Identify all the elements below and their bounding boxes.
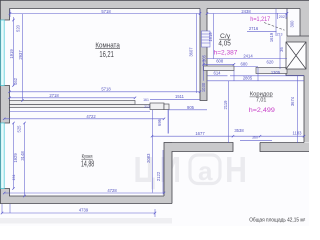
wall right lower (304, 76, 309, 143)
wall room east (between room and bathroom) (200, 9, 207, 101)
watermark band bottom (partial next tile row) (0, 218, 172, 224)
partition bathroom south right piece (256, 68, 287, 74)
wall stub kitchen door (150, 103, 164, 110)
dim extension bathroom west (203, 59, 205, 81)
wall pier left-middle (0, 86, 10, 124)
svg-text:213: 213 (144, 105, 150, 109)
svg-text:h=2,387: h=2,387 (214, 49, 238, 56)
wall kitchen right (164, 142, 172, 204)
svg-text:14,88: 14,88 (81, 160, 95, 169)
svg-text:2083: 2083 (146, 153, 151, 163)
svg-text:4722: 4722 (86, 114, 96, 119)
vent hatch in room east wall (202, 31, 211, 47)
dim line corridor vertical left (228, 81, 230, 144)
wall corridor bottom left segment (172, 143, 233, 152)
svg-text:620: 620 (267, 60, 275, 65)
dim line 2716 (247, 31, 277, 33)
leader dashed for h=1,217 (264, 23, 285, 31)
svg-text:1030: 1030 (201, 82, 206, 92)
svg-text:202: 202 (279, 15, 285, 19)
dim line corridor bottom chain (152, 135, 304, 137)
svg-text:3674: 3674 (290, 96, 295, 106)
svg-text:696: 696 (157, 118, 162, 126)
svg-text:5718: 5718 (101, 86, 111, 91)
svg-text:4739: 4739 (79, 208, 89, 213)
outline corner TL inner faces (1, 9, 10, 21)
outline top wall inner face over room (10, 8, 201, 10)
outline corner BL (1, 189, 164, 197)
svg-text:462: 462 (13, 77, 18, 85)
svg-text:305: 305 (202, 54, 207, 62)
svg-text:213: 213 (277, 33, 283, 37)
svg-text:2119: 2119 (223, 100, 228, 110)
dim line niche vertical (275, 9, 277, 37)
svg-text:7,01: 7,01 (256, 97, 267, 103)
wall corner top-left (0, 0, 10, 20)
svg-text:2716: 2716 (249, 26, 259, 31)
svg-text:131: 131 (12, 175, 16, 181)
room label С/у (218, 33, 231, 48)
wall strip right of shaft (306, 42, 309, 69)
outline below shaft (286, 69, 304, 76)
dim line kitchen vertical right (153, 110, 164, 193)
outline left outer edge (0, 0, 1, 204)
svg-text:608: 608 (216, 59, 224, 64)
dim line corridor right vertical (297, 76, 299, 144)
svg-text:525: 525 (16, 125, 21, 133)
dim line room vertical right (196, 14, 198, 94)
outline pier left-middle (1, 86, 10, 124)
dimension texts blue (49, 9, 302, 213)
svg-text:1305: 1305 (271, 70, 281, 75)
dim line exterior bottom (2, 204, 155, 217)
svg-text:Н: Н (225, 149, 247, 190)
svg-text:1619: 1619 (208, 32, 213, 42)
svg-text:3538: 3538 (234, 128, 244, 133)
svg-text:1929: 1929 (13, 153, 18, 163)
window kitchen (left wall lower) (1, 123, 4, 189)
wall corner bottom-left (0, 189, 10, 197)
watermark letter-a rounded box (190, 155, 220, 184)
svg-text:520: 520 (15, 24, 20, 32)
door leaf kitchen (167, 110, 169, 134)
svg-text:614: 614 (214, 71, 222, 76)
vent shaft crossed box (286, 42, 306, 69)
svg-text:36: 36 (279, 47, 284, 52)
svg-text:2805: 2805 (243, 76, 253, 81)
svg-text:1677: 1677 (195, 131, 205, 136)
dim line 614 (208, 75, 228, 77)
dim line left outer chain (22, 14, 24, 101)
dim line 608 (204, 63, 235, 65)
dim line 2718 (10, 97, 136, 99)
wall bottom (kitchen) (0, 196, 172, 204)
room label Комната (95, 41, 120, 59)
dim line shaft left vertical (279, 36, 281, 69)
svg-text:5718: 5718 (101, 9, 111, 14)
dim line 2414 (207, 58, 287, 60)
svg-text:2414: 2414 (243, 54, 253, 59)
svg-text:1619: 1619 (269, 32, 274, 42)
dim line 2805 (207, 80, 304, 82)
svg-text:Общая площадь 42,15 м²: Общая площадь 42,15 м² (249, 217, 305, 223)
room label Коридор (250, 92, 273, 104)
svg-text:3148: 3148 (20, 151, 25, 161)
svg-text:а: а (198, 156, 213, 186)
room label Кухня (81, 154, 95, 169)
dim line left kitchen chain outer (24, 123, 26, 196)
svg-text:680: 680 (241, 62, 249, 67)
svg-text:3607: 3607 (188, 47, 193, 57)
svg-text:1511: 1511 (175, 94, 185, 99)
dim line room bottom width (10, 91, 201, 93)
dim line bathroom west vertical (213, 14, 215, 59)
outline bottom wall outer face (0, 203, 172, 205)
svg-text:4728: 4728 (107, 188, 117, 193)
svg-text:161: 161 (143, 98, 149, 102)
dimension tick slashes (1, 12, 305, 214)
dim line kitchen top chain (10, 111, 151, 113)
svg-text:1183: 1183 (292, 130, 302, 135)
wall corridor bottom right segment (260, 143, 309, 152)
dim line 4722 (4, 118, 164, 120)
dim marks 202 (278, 13, 287, 19)
svg-text:4,05: 4,05 (218, 41, 230, 48)
outline image top edge (0, 0, 309, 1)
dim line 905 (169, 109, 207, 111)
dim line 680 (234, 66, 258, 68)
outline right top wall west face (299, 9, 301, 37)
outline corridor wall right of door (260, 143, 309, 152)
partition bathroom south left piece (204, 66, 235, 71)
dim line 1511 (150, 98, 200, 100)
svg-text:2937: 2937 (18, 50, 23, 60)
dim line kitchen bottom chain (4, 192, 164, 194)
outline right lower wall west face (303, 76, 305, 143)
outline top wall inner face over bathroom (207, 8, 300, 10)
door jamb kitchen door (164, 104, 169, 110)
dim line 1305 (230, 75, 304, 77)
wall right top (300, 0, 309, 36)
dim line left inner chain (13, 17, 15, 86)
dim line left kitchen chain inner (13, 123, 15, 189)
wall below shaft (286, 69, 309, 76)
outline room east wall faces (200, 9, 207, 101)
svg-text:905: 905 (187, 105, 195, 110)
svg-text:h=2,499: h=2,499 (249, 107, 276, 114)
dim extension bathroom door jambs (234, 68, 258, 81)
svg-text:1919: 1919 (9, 49, 14, 59)
partition kitchen north lower leaf (10, 105, 151, 108)
svg-text:360: 360 (252, 136, 258, 140)
svg-text:2718: 2718 (49, 93, 59, 98)
dim line top room width (10, 10, 200, 18)
svg-text:2438: 2438 (241, 9, 251, 14)
wall top (0, 0, 309, 9)
dim line top bathroom width (207, 10, 287, 18)
outline niche west thin wall (286, 9, 288, 37)
watermark CIAN logo (134, 149, 248, 190)
svg-text:300: 300 (289, 20, 294, 28)
svg-text:2122: 2122 (156, 171, 161, 181)
window room (left wall upper) (1, 20, 4, 86)
outline above shaft / niche (287, 35, 309, 37)
partition room/kitchen upper leaf (10, 101, 136, 105)
rotated dimension texts (9, 20, 295, 181)
dim line corridor bottom chain 2 (240, 139, 272, 141)
svg-text:16,21: 16,21 (99, 49, 114, 59)
outline kitchen right wall west face (164, 143, 233, 204)
wall above shaft (286, 36, 309, 42)
svg-text:h=1,217: h=1,217 (250, 16, 270, 23)
